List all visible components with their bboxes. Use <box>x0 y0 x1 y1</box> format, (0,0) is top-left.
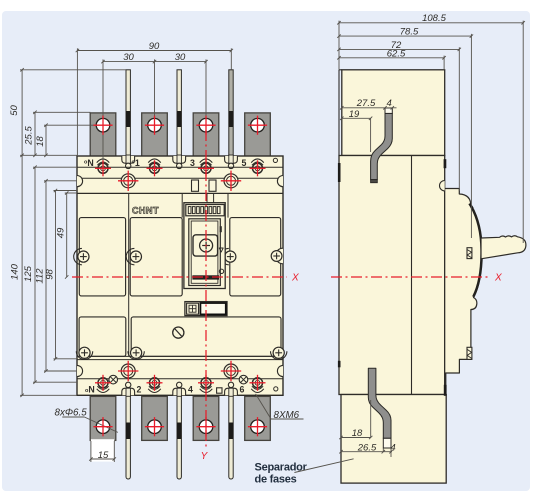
svg-text:98: 98 <box>45 269 56 280</box>
svg-text:125: 125 <box>23 265 34 282</box>
svg-text:62.5: 62.5 <box>387 48 406 59</box>
svg-text:30: 30 <box>175 52 186 63</box>
svg-text:19: 19 <box>349 109 360 120</box>
svg-text:6: 6 <box>240 385 245 395</box>
svg-text:50: 50 <box>9 105 20 116</box>
svg-text:18: 18 <box>35 136 46 147</box>
svg-text:140: 140 <box>10 263 21 280</box>
svg-text:49: 49 <box>56 227 67 238</box>
svg-text:4: 4 <box>188 385 193 395</box>
svg-text:90: 90 <box>149 41 160 52</box>
svg-text:X: X <box>291 273 299 284</box>
svg-text:18: 18 <box>352 428 363 439</box>
svg-text:5: 5 <box>242 158 247 168</box>
svg-text:de fases: de fases <box>255 474 297 486</box>
svg-text:26.5: 26.5 <box>357 442 377 453</box>
svg-text:30: 30 <box>123 52 134 63</box>
svg-text:25.5: 25.5 <box>24 126 35 146</box>
svg-text:3: 3 <box>190 158 195 168</box>
svg-text:15: 15 <box>98 450 109 461</box>
svg-text:78.5: 78.5 <box>400 26 419 37</box>
svg-text:X: X <box>494 273 502 284</box>
svg-text:27.5: 27.5 <box>356 98 376 109</box>
svg-text:4: 4 <box>387 98 392 109</box>
svg-text:108.5: 108.5 <box>422 13 446 24</box>
svg-text:2: 2 <box>137 385 142 395</box>
svg-text:CHNT: CHNT <box>132 205 159 215</box>
